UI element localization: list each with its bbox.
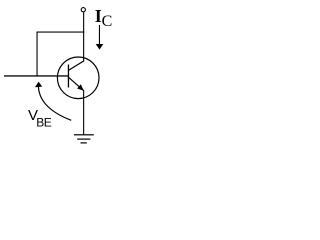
wire: emitter vertical to ground [83,91,84,135]
transistor Q1 emitter arrowhead [77,84,84,91]
svg-text:C: C [102,13,113,30]
current arrow IC [96,25,104,50]
transistor Q1 base bar [68,65,69,88]
svg-text:BE: BE [36,115,52,129]
transistor Q1 (NPN, diode-connected) [57,57,99,99]
node: collector terminal (open circle) [81,8,85,12]
ground [74,134,94,143]
transistor Q1 body circle [57,57,99,99]
wire: collector vertical from terminal to transistor [83,12,84,61]
label VBE [28,107,52,129]
wire: base horizontal input [4,75,69,76]
wire: feedback top horizontal (collector to base loop) [37,32,85,33]
ground bar 1 [74,134,94,135]
label IC [95,6,113,30]
wire: feedback left vertical [37,32,38,77]
transistor Q1 collector stroke [68,61,83,70]
ground bar 3 [81,142,87,143]
ground bar 2 [77,139,90,140]
transistor Q1 emitter stroke [68,77,83,91]
VBE arc arrow (base-emitter voltage indicator) [35,82,71,121]
